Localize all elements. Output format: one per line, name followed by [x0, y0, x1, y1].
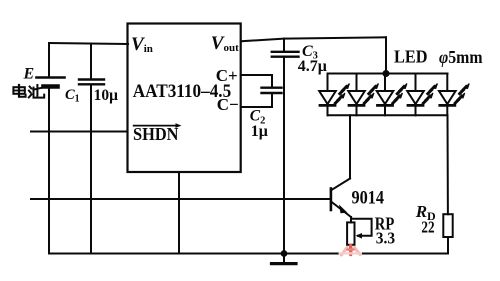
potentiometer RP — [347, 219, 372, 245]
wire LED bus to collector — [349, 115, 351, 178]
junction Vout LED node — [384, 71, 389, 76]
wire LED bus to RD — [447, 115, 449, 214]
resistor RD — [443, 214, 452, 237]
capacitor C3 — [272, 39, 299, 57]
wire ground bus right — [361, 253, 448, 255]
junction ground node — [282, 251, 287, 256]
svg-text:E: E — [23, 66, 35, 83]
svg-text:SHDN: SHDN — [133, 124, 179, 144]
LED D2 — [348, 74, 365, 116]
op IC U1 AAT3110 box — [128, 24, 241, 173]
red scan mark near RP — [340, 246, 362, 256]
wire RD to ground bus — [447, 237, 449, 254]
wire base rail — [31, 198, 331, 200]
wire C1 to ground bus — [90, 85, 92, 254]
wire SHDN rail — [31, 131, 128, 133]
svg-text:φ5mm: φ5mm — [439, 47, 483, 67]
wire ground bus left — [49, 253, 340, 255]
svg-text:C−: C− — [217, 95, 239, 114]
svg-text:3.3: 3.3 — [376, 229, 395, 248]
svg-text:10μ: 10μ — [94, 87, 119, 104]
light arrows D3 — [393, 84, 407, 104]
battery E — [37, 43, 65, 87]
light arrows D4 — [423, 84, 437, 104]
svg-text:4.7μ: 4.7μ — [298, 58, 327, 75]
label SHDN pin with overline — [133, 123, 182, 144]
light arrows D1 — [335, 84, 349, 104]
capacitor C2 with C+/C- loop wires — [241, 75, 282, 107]
LED top bus — [328, 73, 448, 75]
svg-text:1μ: 1μ — [251, 123, 268, 140]
ground — [272, 254, 297, 264]
wire Vout rail drop to LED bus — [385, 37, 387, 73]
light arrows D2 — [364, 84, 378, 104]
svg-text:LED: LED — [394, 47, 428, 67]
LED D5 — [439, 74, 456, 116]
wire C3 to ground bus — [283, 58, 285, 254]
light arrows D5 — [455, 84, 469, 104]
wire Vout rail — [241, 37, 386, 41]
svg-text:Vout: Vout — [211, 33, 239, 54]
LED D1 — [319, 74, 336, 116]
transistor Q1 9014 — [331, 179, 351, 218]
capacitor C1 — [79, 44, 104, 85]
wire IC ground pin — [178, 172, 180, 254]
svg-text:C1: C1 — [65, 87, 80, 105]
LED bottom bus — [328, 114, 448, 116]
label 电池 battery — [13, 85, 44, 98]
LED D3 — [377, 74, 394, 116]
svg-text:22: 22 — [421, 218, 434, 237]
wire battery to ground bus — [48, 88, 50, 254]
svg-text:Vin: Vin — [131, 34, 153, 55]
LED D4 — [407, 74, 424, 116]
wire top rail battery to Vin — [49, 43, 128, 44]
wire emitter to RP — [350, 217, 352, 222]
svg-text:9014: 9014 — [352, 189, 385, 209]
